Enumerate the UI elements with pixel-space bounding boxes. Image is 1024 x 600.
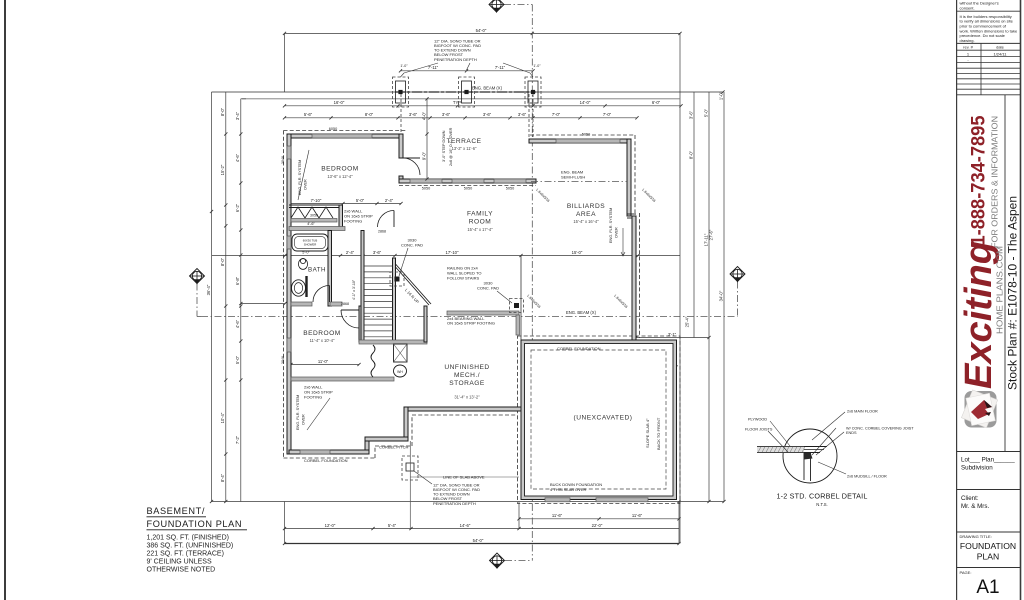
- left dim col 1 (36'-4"): [211, 92, 213, 502]
- right section mark: [730, 267, 745, 282]
- svg-text:3050: 3050: [310, 213, 318, 217]
- svg-text:FAMILY: FAMILY: [467, 211, 493, 218]
- right beam riser: [737, 282, 739, 317]
- furnace: [394, 344, 408, 362]
- svg-text:5050: 5050: [506, 186, 514, 190]
- svg-text:FOR ORDERS & INFORMATION: FOR ORDERS & INFORMATION: [991, 116, 1000, 248]
- svg-text:5050: 5050: [464, 186, 472, 190]
- bottom baseline: [212, 501, 725, 503]
- window band terrace 2: [452, 179, 484, 183]
- bath north wall: [289, 227, 345, 231]
- svg-text:5050: 5050: [422, 186, 430, 190]
- svg-text:CORBEL PITCH: CORBEL PITCH: [379, 444, 409, 449]
- svg-text:BEDROOM: BEDROOM: [321, 166, 359, 173]
- window band left 3: [287, 338, 291, 352]
- svg-text:ENG. BEAM (X): ENG. BEAM (X): [566, 310, 597, 315]
- unexcavated inner dashed: [531, 350, 666, 489]
- bottom post pad: [402, 456, 418, 480]
- svg-text:25'-4": 25'-4": [684, 316, 689, 327]
- right dim line x680: [679, 33, 681, 543]
- stair diagonal wall: [396, 267, 430, 305]
- svg-text:3'-6": 3'-6": [373, 250, 382, 255]
- svg-text:31'-4" x 13'-2": 31'-4" x 13'-2": [454, 395, 480, 400]
- bed1 bottom dim: [289, 203, 401, 205]
- svg-text:CORBEL FOUNDATION: CORBEL FOUNDATION: [557, 346, 601, 351]
- wall billiards north: [529, 139, 631, 143]
- svg-text:2'-4": 2'-4": [385, 198, 394, 203]
- svg-text:1'-0": 1'-0": [533, 64, 541, 68]
- svg-text:6'-8": 6'-8": [235, 276, 240, 285]
- svg-text:3'-6": 3'-6": [442, 112, 451, 117]
- svg-text:DRAWING TITLE:: DRAWING TITLE:: [960, 534, 992, 539]
- bottom section mark: [490, 553, 505, 568]
- svg-text:ROOM: ROOM: [469, 219, 492, 226]
- footing dashed NW: [284, 130, 407, 132]
- svg-text:22'-0": 22'-0": [592, 523, 603, 528]
- svg-text:UNFINISHED: UNFINISHED: [444, 364, 489, 371]
- svg-text:TERRACE: TERRACE: [446, 138, 481, 145]
- svg-text:8'-0": 8'-0": [220, 257, 225, 266]
- svg-text:15'-4" x 17'-4": 15'-4" x 17'-4": [467, 227, 493, 232]
- unexcavated vent 1: [545, 498, 570, 502]
- svg-text:13'-6" x 12'-4": 13'-6" x 12'-4": [327, 174, 353, 179]
- svg-text:4'-1" x 3'-10": 4'-1" x 3'-10": [352, 279, 356, 300]
- svg-text:4'-6": 4'-6": [235, 153, 240, 162]
- svg-text:27'-6": 27'-6": [708, 229, 713, 240]
- svg-text:2868: 2868: [341, 302, 349, 306]
- bottom dim level 2: [285, 528, 520, 530]
- svg-text:8'-4": 8'-4": [220, 473, 225, 482]
- svg-text:ENG. BEAM (X): ENG. BEAM (X): [472, 86, 503, 91]
- bed2 south interior wall: [291, 377, 394, 381]
- bath south wall: [291, 302, 312, 306]
- left short dim y303: [241, 303, 285, 305]
- svg-text:17'-10": 17'-10": [446, 250, 460, 255]
- svg-text:2x6 MUDSILL / FLOOR: 2x6 MUDSILL / FLOOR: [847, 474, 887, 478]
- bath door arc: [313, 286, 330, 303]
- wall bed1 east / terrace west: [399, 134, 403, 158]
- terrace beam line: [395, 91, 536, 93]
- svg-text:7'-0": 7'-0": [603, 112, 612, 117]
- svg-text:1-2 STD. CORBEL DETAIL: 1-2 STD. CORBEL DETAIL: [776, 492, 867, 501]
- svg-text:3'-6": 3'-6": [483, 112, 492, 117]
- svg-text:221 SQ. FT. (TERRACE): 221 SQ. FT. (TERRACE): [147, 551, 224, 558]
- title block left border line: [956, 0, 958, 600]
- svg-text:BILLIARDS: BILLIARDS: [567, 203, 605, 210]
- svg-text:36'-4": 36'-4": [206, 284, 211, 295]
- svg-text:Subdivision: Subdivision: [961, 465, 993, 472]
- svg-text:1/24/11: 1/24/11: [993, 51, 1007, 56]
- svg-text:16'-0": 16'-0": [334, 100, 345, 105]
- svg-text:7'-0": 7'-0": [552, 112, 561, 117]
- flex duct squiggle: [371, 345, 375, 377]
- svg-text:MECH./: MECH./: [454, 372, 480, 379]
- svg-text:8'-0": 8'-0": [365, 112, 374, 117]
- window band billiards north: [556, 139, 620, 143]
- bed1 south wall: [289, 204, 343, 206]
- svg-text:FOUNDATION PLAN: FOUNDATION PLAN: [147, 519, 243, 529]
- svg-text:SLOPE SLAB 4": SLOPE SLAB 4": [645, 418, 650, 448]
- svg-text:consent.: consent.: [960, 5, 975, 10]
- svg-text:Client:: Client:: [961, 495, 979, 502]
- svg-text:5'-6": 5'-6": [304, 112, 313, 117]
- wall billiards jog: [627, 213, 636, 215]
- svg-text:FOLLOW STAIRS: FOLLOW STAIRS: [447, 275, 479, 280]
- unexcavated vent 2: [596, 498, 648, 502]
- left dim arrow: [241, 98, 246, 100]
- bed2 east wall: [359, 306, 363, 342]
- left dim col 3: [240, 99, 242, 502]
- title block: logo icon: [965, 391, 997, 428]
- svg-text:BASEMENT/: BASEMENT/: [147, 506, 206, 516]
- footing dashed south bed2: [284, 457, 376, 459]
- vertical section line: [531, 5, 533, 561]
- svg-text:CONC. PAD: CONC. PAD: [477, 286, 499, 291]
- wall storage step S1: [404, 407, 521, 411]
- bath east wall: [328, 231, 332, 307]
- svg-text:34'-0": 34'-0": [718, 290, 723, 301]
- svg-text:HOME PLANS.COM: HOME PLANS.COM: [995, 246, 1005, 334]
- closet rod zigzag: [291, 207, 333, 218]
- svg-text:3046: 3046: [281, 356, 285, 364]
- terrace post 1: [393, 77, 409, 107]
- wall storage step S3: [365, 437, 408, 441]
- storage post pad: [510, 299, 524, 313]
- svg-text:BEDROOM: BEDROOM: [303, 330, 341, 337]
- stair post pad: [390, 272, 404, 286]
- svg-text:ENDS: ENDS: [846, 431, 857, 435]
- svg-text:10'-4": 10'-4": [220, 412, 225, 423]
- wall billiards east upper: [627, 139, 631, 216]
- top dim riser left: [284, 33, 286, 92]
- svg-text:7'-11": 7'-11": [428, 65, 439, 70]
- wall left exterior: [287, 134, 291, 454]
- footing dashed billiards right: [634, 135, 636, 213]
- svg-text:15'-4" x 16'-4": 15'-4" x 16'-4": [573, 219, 599, 224]
- svg-text:15'-2": 15'-2": [220, 164, 225, 175]
- svg-text:3'-0" STEP DOWN: 3'-0" STEP DOWN: [442, 130, 446, 162]
- svg-text:5050: 5050: [582, 132, 590, 136]
- footing dashed step2: [411, 415, 413, 446]
- svg-text:386 SQ. FT. (UNFINISHED): 386 SQ. FT. (UNFINISHED): [147, 543, 234, 550]
- svg-text:4'-6": 4'-6": [307, 222, 315, 226]
- svg-text:9' CEILING UNLESS: 9' CEILING UNLESS: [147, 559, 212, 566]
- wall storage step S2: [404, 407, 408, 441]
- svg-text:ENG. FLR. SYSTEM: ENG. FLR. SYSTEM: [296, 395, 300, 430]
- bed2 width dim: [291, 364, 359, 366]
- window band left 2: [287, 236, 291, 249]
- svg-text:Stock Plan #: E1078-10 - The: Stock Plan #: E1078-10 - The Aspen: [1008, 196, 1020, 390]
- corbel detail: [783, 429, 837, 483]
- svg-text:(UNEXCAVATED): (UNEXCAVATED): [574, 415, 633, 422]
- title block: company logo text: [1004, 95, 1006, 452]
- footing dashed left: [283, 131, 285, 459]
- svg-text:WH: WH: [397, 370, 403, 374]
- svg-text:14'-0": 14'-0": [580, 100, 591, 105]
- bearing wall stub: [516, 315, 520, 335]
- svg-text:7'-10": 7'-10": [311, 198, 322, 203]
- water heater: [394, 365, 407, 377]
- svg-text:LINE OF SLAB ABOVE: LINE OF SLAB ABOVE: [443, 475, 485, 480]
- svg-text:N.T.S.: N.T.S.: [816, 502, 827, 507]
- svg-text:4'-6": 4'-6": [235, 319, 240, 328]
- footing dashed billiards top: [530, 134, 635, 136]
- terrace west dashed wall: [400, 94, 402, 134]
- svg-text:AREA: AREA: [576, 211, 596, 218]
- svg-text:drawing.: drawing.: [960, 38, 975, 43]
- terrace post 2: [459, 77, 475, 107]
- title block: project info sections: [957, 451, 1020, 453]
- footing dashed terrace south: [399, 185, 536, 187]
- sheet left border line: [4, 0, 6, 600]
- svg-text:9'-0": 9'-0": [421, 151, 426, 160]
- wall closet east: [339, 205, 343, 230]
- top section mark: [489, 0, 504, 12]
- storage east divider: [520, 256, 522, 341]
- left section mark: [190, 269, 205, 284]
- svg-text:8'-0": 8'-0": [220, 107, 225, 116]
- closet front wall: [291, 219, 337, 223]
- window band terrace 3: [494, 179, 526, 183]
- overhang end tick: [721, 90, 724, 93]
- svg-text:3046: 3046: [281, 156, 285, 164]
- svg-text:FOOTING: FOOTING: [344, 218, 362, 223]
- svg-text:PENETRATION DEPTH: PENETRATION DEPTH: [434, 57, 477, 62]
- window band terrace 1: [410, 179, 442, 183]
- svg-text:4 THIN SLAB OVER: 4 THIN SLAB OVER: [550, 487, 586, 492]
- wall storage step S4: [365, 441, 369, 452]
- stair east wall: [393, 258, 396, 342]
- unexcavated top dim: [523, 366, 676, 368]
- interior dim line y255: [212, 255, 680, 257]
- svg-text:5'-4": 5'-4": [388, 523, 397, 528]
- svg-text:OVER: OVER: [304, 179, 308, 190]
- window band bed2 south: [300, 450, 330, 454]
- left beam riser: [196, 284, 198, 317]
- svg-text:SHOWER: SHOWER: [304, 242, 317, 246]
- svg-text:FLOOR JOISTS: FLOOR JOISTS: [745, 427, 773, 431]
- svg-text:8'-0": 8'-0": [688, 150, 693, 159]
- svg-text:3'-4": 3'-4": [235, 111, 240, 120]
- terrace interior dim: [426, 99, 428, 179]
- right dim col x709: [708, 92, 710, 502]
- bottom baseline ticks: [677, 500, 680, 503]
- terrace east dashed wall: [528, 94, 530, 139]
- svg-text:3'-6": 3'-6": [518, 112, 527, 117]
- wall bed1 north: [287, 134, 403, 138]
- title block right border line: [1020, 0, 1022, 600]
- svg-text:ENG. FLR. SYSTEM: ENG. FLR. SYSTEM: [609, 208, 613, 243]
- bed2 door arc: [341, 310, 359, 328]
- left dim col 2: [225, 92, 227, 502]
- svg-text:5'-0": 5'-0": [235, 355, 240, 364]
- svg-text:date: date: [996, 45, 1005, 50]
- svg-text:14'-6": 14'-6": [460, 523, 471, 528]
- svg-text:3'-6": 3'-6": [688, 110, 693, 119]
- overhang line A: [212, 91, 724, 93]
- svg-text:PLAN: PLAN: [977, 552, 999, 562]
- bottom dim level 2 right: [519, 528, 679, 530]
- svg-text:CONC. PAD: CONC. PAD: [401, 242, 423, 247]
- svg-text:Lot___ Plan______: Lot___ Plan______: [961, 457, 1015, 464]
- hall door arc: [378, 211, 395, 228]
- wall bed2 south: [289, 450, 369, 454]
- svg-text:7'-2": 7'-2": [235, 435, 240, 444]
- svg-text:12'-0": 12'-0": [325, 523, 336, 528]
- svg-text:11'-6": 11'-6": [632, 513, 643, 518]
- terrace post 3: [525, 77, 541, 107]
- svg-text:5'-0": 5'-0": [703, 108, 708, 117]
- window band left 1: [287, 146, 291, 159]
- bottom dim level 1 right: [519, 518, 679, 520]
- tub: [292, 234, 328, 251]
- svg-text:54'-0": 54'-0": [476, 28, 487, 33]
- svg-text:W/ CONC. CORBEL COVERING JOIST: W/ CONC. CORBEL COVERING JOIST: [846, 426, 914, 430]
- wall unexcavated: [521, 340, 677, 500]
- stair south wall: [359, 340, 427, 344]
- svg-text:CORBEL FOUNDATION: CORBEL FOUNDATION: [304, 458, 348, 463]
- svg-text:11'-0": 11'-0": [318, 359, 329, 364]
- bottom dim risers: [284, 502, 286, 544]
- stair treads: [364, 265, 393, 267]
- svg-text:15'-0": 15'-0": [572, 250, 583, 255]
- window band bed1 north: [312, 134, 372, 138]
- svg-text:PENETRATION DEPTH: PENETRATION DEPTH: [433, 501, 476, 506]
- footing dashed unexcavated: [518, 336, 681, 504]
- svg-text:SEMI-FLUSH: SEMI-FLUSH: [561, 174, 585, 179]
- svg-text:TYP: TYP: [453, 100, 461, 105]
- title block: disclaimer notes: [957, 10, 1020, 12]
- svg-text:FOOTING: FOOTING: [304, 394, 322, 399]
- svg-text:ON 16x6 STRIP FOOTING: ON 16x6 STRIP FOOTING: [447, 321, 495, 326]
- svg-text:2x6 MAIN FLOOR: 2x6 MAIN FLOOR: [847, 409, 878, 413]
- top overall dim 54'-0": [285, 32, 681, 34]
- door bed1-terrace arc: [403, 158, 420, 175]
- footing dashed step1: [374, 446, 376, 458]
- svg-text:OVER: OVER: [615, 227, 619, 238]
- svg-text:BATH: BATH: [308, 267, 326, 274]
- svg-text:rev. #: rev. #: [963, 45, 973, 50]
- svg-text:OVER: OVER: [302, 414, 306, 425]
- svg-text:11'-6": 11'-6": [552, 513, 563, 518]
- post spacing dim: [401, 70, 534, 72]
- svg-text:54'-0": 54'-0": [473, 538, 484, 543]
- top dim level 2: [285, 105, 682, 107]
- svg-text:OTHERWISE NOTED: OTHERWISE NOTED: [147, 567, 216, 574]
- svg-text:5'-0": 5'-0": [356, 198, 365, 203]
- svg-text:6'-0": 6'-0": [652, 100, 661, 105]
- svg-text:2868: 2868: [378, 230, 386, 234]
- toilet: [298, 259, 307, 270]
- svg-text:PAGE:: PAGE:: [960, 570, 972, 575]
- wall terrace south: [399, 179, 536, 183]
- top section connector: [504, 4, 532, 6]
- svg-text:3'-6": 3'-6": [409, 112, 418, 117]
- bottom overall dim 54'-0": [285, 543, 680, 545]
- svg-text:STORAGE: STORAGE: [449, 380, 485, 387]
- svg-text:6050: 6050: [329, 127, 337, 131]
- svg-text:6'-2": 6'-2": [235, 203, 240, 212]
- svg-text:1'-0": 1'-0": [718, 91, 723, 100]
- svg-text:BACK TO FRONT: BACK TO FRONT: [656, 417, 661, 450]
- bearing wall: [447, 311, 519, 315]
- title block: revision table: [957, 49, 1020, 51]
- svg-text:1-888-734-7895: 1-888-734-7895: [968, 115, 990, 245]
- svg-text:1,201 SQ. FT. (FINISHED): 1,201 SQ. FT. (FINISHED): [147, 535, 229, 542]
- svg-text:FOUNDATION: FOUNDATION: [960, 541, 1016, 551]
- right dim mid: [636, 337, 709, 339]
- svg-text:7'-11": 7'-11": [495, 65, 506, 70]
- stair west wall: [361, 231, 364, 343]
- horizontal beam line: [201, 316, 738, 318]
- top dim level 3: [285, 117, 638, 119]
- svg-text:2'-4": 2'-4": [346, 250, 355, 255]
- overhang line B: [242, 98, 680, 100]
- svg-text:PLYWOOD: PLYWOOD: [748, 417, 767, 421]
- svg-text:4'-0": 4'-0": [421, 111, 426, 120]
- bottom section connector: [505, 560, 532, 562]
- right dim col x724: [723, 92, 725, 502]
- svg-text:1'-0": 1'-0": [400, 64, 408, 68]
- wall billiards east lower: [632, 216, 636, 340]
- svg-text:A1: A1: [976, 577, 999, 598]
- stair landing east wall: [424, 306, 427, 342]
- svg-text:11'-4" x 10'-4": 11'-4" x 10'-4": [310, 338, 335, 343]
- sink vanity: [305, 276, 307, 297]
- svg-text:13'-2" x 11'-6": 13'-2" x 11'-6": [452, 146, 477, 151]
- svg-text:Mr. & Mrs.: Mr. & Mrs.: [961, 503, 989, 510]
- right dim col x694: [693, 92, 695, 338]
